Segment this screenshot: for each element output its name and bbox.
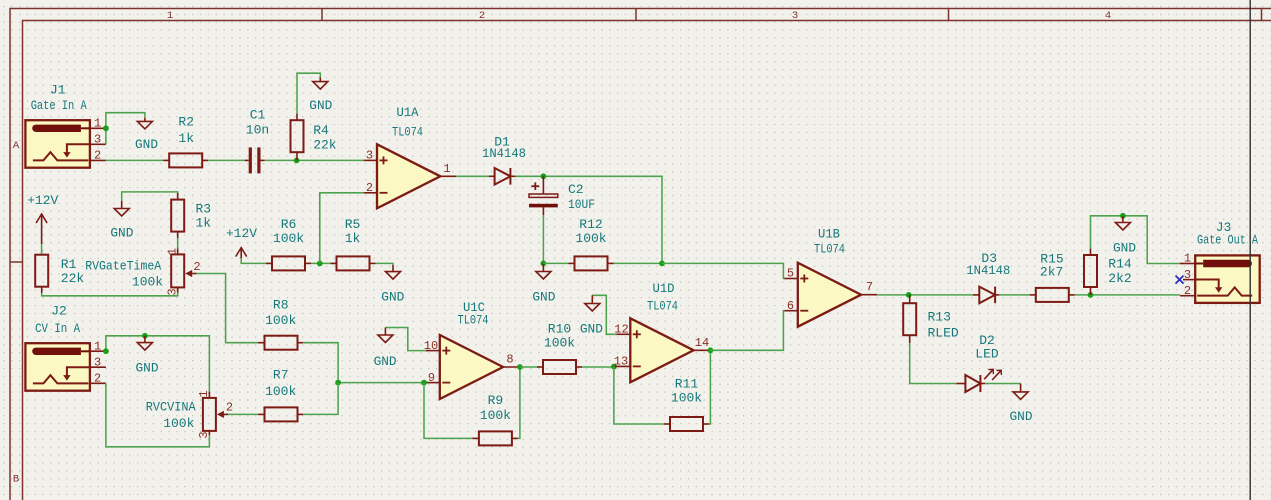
wire R9 to U1C out [518,367,520,438]
wire U1C feedback via R9 [424,383,472,439]
svg-text:GND: GND [110,226,133,241]
resistor R1 22k [35,255,84,293]
wire R14 top to J3 pin1 [1091,216,1181,264]
wire U1D feedback via R11 [614,366,664,424]
svg-text:4: 4 [1105,10,1111,22]
svg-text:B: B [13,474,19,486]
wire R2 to C1 [208,159,244,161]
svg-text:10n: 10n [246,123,269,138]
svg-text:R2: R2 [178,115,194,130]
svg-text:TL074: TL074 [458,313,489,328]
wire C2 node to R12 [543,262,568,264]
svg-text:R11: R11 [675,377,699,392]
svg-text:TL074: TL074 [392,125,423,140]
capacitor C2 10UF polarized [529,176,595,215]
svg-text:22k: 22k [61,271,85,286]
wire R3 top to GND [122,192,178,201]
resistor R6 100k [266,217,311,270]
svg-text:TL074: TL074 [814,242,845,257]
wire R13 to D2 [910,343,957,384]
svg-text:1k: 1k [196,216,212,231]
junction J1 pin1 [103,125,109,131]
svg-text:TL074: TL074 [647,299,678,314]
op-amp U1A TL074 [364,105,457,208]
wire R5 to GND [376,263,394,265]
connector J2 CV In A [25,304,106,391]
svg-text:R12: R12 [579,217,602,232]
ground at R4 [309,78,332,113]
svg-text:R1: R1 [61,257,77,272]
diode D3 1N4148 [966,251,1010,303]
svg-text:GND: GND [532,289,555,304]
wire junction to U1B pin5 [662,263,785,278]
svg-text:J2: J2 [51,304,67,319]
svg-text:+12V: +12V [27,193,58,208]
svg-text:3: 3 [165,288,179,295]
ground near J3 [1113,216,1136,256]
svg-text:6: 6 [787,299,794,313]
wire +12V to R1 [41,244,43,255]
junction U1D out [708,347,714,353]
wire R7 to branch [303,383,338,415]
svg-text:GND: GND [381,289,404,304]
ground at J1 [135,118,158,152]
junction GND tap near J3 [1120,213,1126,219]
junction R12 right [659,261,665,267]
wire J1 pin2 to R2 [106,159,163,161]
resistor R14 2k2 [1084,249,1132,295]
svg-text:U1A: U1A [397,105,419,120]
ground at D2 [1010,384,1033,424]
page limit line [1249,0,1251,500]
ground at C2 [532,263,555,304]
wire C1 to U1A pin3 [265,159,364,161]
potentiometer RVGateTimeA 100k [85,248,200,296]
svg-text:R13: R13 [928,310,951,325]
connector J1 Gate In A [25,83,106,168]
svg-text:CV In A: CV In A [35,321,80,336]
LED D2 [956,333,1001,392]
svg-text:100k: 100k [163,416,194,431]
op-amp U1B TL074 [785,227,878,327]
svg-text:8: 8 [506,353,513,367]
wire R4 top to GND [297,73,320,113]
svg-text:GND: GND [1010,409,1033,424]
svg-text:1N4148: 1N4148 [966,263,1010,278]
wire C2 node to U1B branch [543,176,662,263]
svg-text:13: 13 [614,355,628,369]
resistor R12 100k [569,217,614,271]
ground at R5 [381,265,404,304]
svg-text:1: 1 [167,10,173,22]
svg-text:2k2: 2k2 [1108,271,1131,286]
svg-text:5: 5 [787,267,794,281]
diode D1 1N4148 [482,135,526,185]
wire R10 to U1D pin13 [582,366,614,368]
resistor R13 RLED [903,295,959,343]
wire R6 to R5 [311,262,337,264]
svg-text:100k: 100k [480,408,511,423]
svg-text:22k: 22k [313,137,337,152]
svg-text:10UF: 10UF [568,197,595,212]
junction U1B out R13 [906,292,912,298]
wire J2 pin2 to RVCVINA pin3 [106,383,209,447]
resistor R2 1k [163,115,208,168]
svg-text:2: 2 [94,149,101,163]
resistor R7 100k [258,367,303,421]
resistor R8 100k [258,297,303,349]
ground at U1D pin12 [580,295,616,336]
wire J1 pin1 to GND and pin3 [106,113,145,129]
svg-text:R8: R8 [273,297,289,312]
wire U1B out to D3 [877,294,973,296]
ground at U1C pin10 [374,328,426,369]
resistor R5 1k [331,217,376,270]
svg-text:1k: 1k [178,131,194,146]
ground at J2 [136,336,159,376]
svg-text:R5: R5 [345,217,361,232]
svg-text:R7: R7 [273,367,289,382]
svg-text:GND: GND [374,354,397,369]
svg-text:GND: GND [580,322,603,337]
junction D1 C2 node [541,173,547,179]
junction U1D pin13 [611,364,617,370]
svg-text:2: 2 [479,10,485,22]
power +12V at R1 [27,193,58,244]
svg-text:2: 2 [1184,284,1191,298]
svg-text:Gate In A: Gate In A [31,98,87,113]
wire R1 bottom to RVGateTimeA pin3 [42,293,178,296]
svg-text:R10: R10 [548,321,571,336]
capacitor C1 10n [245,108,270,174]
svg-text:R14: R14 [1108,257,1132,272]
op-amp U1C TL074 [424,300,520,399]
svg-text:R6: R6 [281,217,297,232]
svg-text:1k: 1k [345,231,361,246]
svg-text:2k7: 2k7 [1040,264,1063,279]
svg-text:3: 3 [366,149,373,163]
svg-text:100k: 100k [671,391,702,406]
svg-text:Gate Out A: Gate Out A [1197,233,1258,248]
svg-text:2: 2 [226,400,233,414]
ground at R3 [110,201,133,241]
svg-text:J1: J1 [50,83,66,98]
wire D2 to GND [985,383,1020,385]
resistor R4 22k [291,114,337,161]
potentiometer RVCVINA 100k [146,390,233,438]
wire RVGateTimeA wiper to R8 [196,274,258,343]
svg-text:RVCVINA: RVCVINA [146,400,196,415]
svg-text:1: 1 [94,117,101,131]
wire D3 to R15 [999,294,1029,296]
svg-text:10: 10 [424,339,438,353]
no-connect X at J3 pin3 [1176,276,1184,284]
svg-text:3: 3 [94,133,101,147]
svg-text:C2: C2 [568,182,584,197]
svg-text:1N4148: 1N4148 [482,146,526,161]
junction R14 bottom [1088,292,1094,298]
connector J3 Gate Out A [1180,220,1260,303]
svg-text:12: 12 [614,323,628,337]
junction R6 R5 node [317,261,323,267]
wire RVCVINA wiper to R7 [228,413,258,415]
svg-text:9: 9 [428,371,435,385]
svg-text:3: 3 [197,431,211,438]
svg-text:1: 1 [165,248,179,255]
op-amp U1D TL074 [614,281,711,382]
svg-text:R3: R3 [196,201,212,216]
wire R11 to U1D out [709,350,710,424]
svg-text:14: 14 [695,336,709,350]
svg-text:GND: GND [309,98,332,113]
svg-text:1: 1 [1184,252,1191,266]
wire R15 to J3 pin2 [1075,294,1180,296]
svg-text:GND: GND [135,137,158,152]
svg-text:GND: GND [136,361,159,376]
svg-text:7: 7 [866,280,873,294]
resistor R15 2k7 [1030,252,1075,302]
wire J2 pin1 to RVCVINA pin1 [106,336,209,392]
svg-text:100k: 100k [544,335,575,350]
svg-text:1: 1 [443,162,450,176]
svg-text:3: 3 [1184,268,1191,282]
svg-text:+12V: +12V [226,226,257,241]
svg-text:1: 1 [94,339,101,353]
svg-text:C1: C1 [250,108,266,123]
wire U1A out to D1 [456,175,489,177]
wire R3 bottom to RVGateTimeA pin1 [177,238,179,249]
svg-text:2: 2 [94,372,101,386]
svg-text:RLED: RLED [928,325,959,340]
resistor R10 100k [537,321,582,374]
junction GND tap on J2 wire [142,333,148,339]
wire D1 to C2 top node [516,175,544,177]
junction R8 R7 branch [335,380,341,386]
svg-text:U1D: U1D [653,281,675,296]
svg-text:U1B: U1B [818,227,840,242]
svg-text:LED: LED [975,347,999,362]
wire R8 to U1C pin9 branch [303,343,424,383]
svg-text:3: 3 [792,10,798,22]
wire U1C out to R10 [520,366,537,368]
svg-text:RVGateTimeA: RVGateTimeA [85,258,161,273]
svg-text:100k: 100k [575,231,606,246]
junction U1C pin9 [421,380,427,386]
wire +12V to R6 [241,258,266,263]
svg-text:100k: 100k [273,231,304,246]
wire J1 pin1 to pin3 [105,128,107,144]
wire node to U1A pin2 [320,193,364,264]
svg-text:100k: 100k [132,275,163,290]
junction J2 pin1 [103,348,109,354]
svg-text:A: A [13,140,20,152]
wire C2 bottom to R12 node [542,215,544,263]
svg-text:2: 2 [193,260,200,274]
junction C2 bottom [541,261,547,267]
wire U1D out to U1B pin6 [710,311,784,351]
svg-text:2: 2 [366,181,373,195]
power +12V at R6 [226,226,257,258]
svg-text:3: 3 [94,355,101,369]
svg-text:100k: 100k [265,384,296,399]
wire R12 to junction [614,262,663,264]
resistor R3 1k [171,193,211,238]
junction C1 R4 node [294,158,300,164]
svg-text:GND: GND [1113,241,1136,256]
svg-text:1: 1 [197,390,211,397]
svg-text:100k: 100k [265,313,296,328]
svg-text:R9: R9 [488,393,504,408]
resistor R11 100k [664,377,709,432]
junction U1C out [517,364,523,370]
svg-text:R4: R4 [313,123,329,138]
resistor R9 100k [472,393,518,446]
